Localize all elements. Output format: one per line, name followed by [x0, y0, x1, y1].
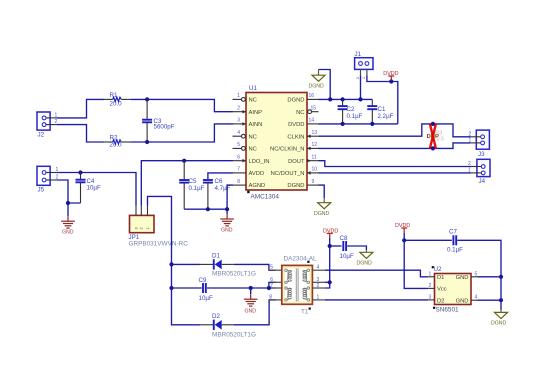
- wire U2 pin5 to DGND rail: [478, 276, 502, 278]
- svg-text:0.1µF: 0.1µF: [347, 113, 363, 120]
- wire DOUT pin11 to J4 pin2: [319, 161, 471, 167]
- wire C8 to DGND: [347, 246, 366, 250]
- wire DVDD node to C8: [330, 245, 342, 247]
- transistor-driver U2 SN6501 body: [432, 266, 471, 314]
- svg-text:10µF: 10µF: [87, 185, 101, 192]
- connector J1: [355, 51, 374, 69]
- wire T1 pin1 to U2 pin3: [325, 299, 429, 301]
- svg-text:5: 5: [475, 271, 478, 277]
- JP1 pin 1 stub: [135, 206, 137, 216]
- svg-text:GND: GND: [221, 227, 233, 233]
- svg-text:DGND: DGND: [314, 211, 330, 217]
- node C7 bus tap: [402, 238, 406, 242]
- svg-text:GRPB031VWVN-RC: GRPB031VWVN-RC: [129, 241, 189, 248]
- wire rail to C9: [172, 287, 202, 289]
- connector J5: [37, 166, 50, 193]
- wire AVDD pin7 to C6: [208, 173, 233, 179]
- U2 pin 4 stub: [471, 295, 478, 301]
- node R2/C3 junction: [145, 140, 149, 144]
- svg-text:Vcc: Vcc: [437, 287, 447, 293]
- svg-text:16: 16: [309, 93, 315, 99]
- connector J2: [37, 112, 50, 139]
- T1 pin 8 stub: [269, 294, 282, 300]
- U2 pin 1 stub: [428, 271, 434, 277]
- power DGND (C8): [357, 250, 373, 266]
- power DGND (below U1): [314, 198, 331, 217]
- svg-text:1: 1: [237, 93, 240, 99]
- J1 pin 1 stub: [362, 69, 367, 79]
- ground GND (J5 area): [61, 216, 75, 235]
- svg-text:D2: D2: [437, 298, 444, 304]
- node R1/C3 junction: [145, 97, 149, 101]
- U1 pin 10 NC/DOUT_N stub: [307, 167, 319, 175]
- svg-text:MBR0520LT1G: MBR0520LT1G: [212, 332, 256, 339]
- wire rail to D1: [172, 263, 200, 265]
- svg-text:DOUT: DOUT: [288, 159, 305, 165]
- svg-text:DGND: DGND: [287, 98, 304, 104]
- svg-text:10µF: 10µF: [199, 295, 213, 302]
- U2 pin 3 stub: [428, 294, 434, 300]
- wire DVDD down to U2 Vcc: [404, 233, 428, 289]
- U1 pin 1 NC stub: [233, 93, 246, 101]
- node DNP top: [431, 122, 435, 126]
- node U2 pin5 junction: [499, 275, 503, 279]
- svg-text:NC: NC: [249, 98, 257, 104]
- wire J1 pin2 to DGND bus: [360, 75, 362, 99]
- svg-text:0.1µF: 0.1µF: [189, 185, 205, 192]
- capacitor C6: [203, 178, 231, 209]
- wire C4 bottom to ground node: [68, 203, 81, 216]
- J3 pin 1 stub: [469, 138, 481, 144]
- svg-text:DGND: DGND: [357, 260, 373, 266]
- node DGND drop: [328, 97, 332, 101]
- svg-text:MBR0520LT1G: MBR0520LT1G: [212, 271, 256, 278]
- wire J5 pin1 to JP1 pin1: [57, 173, 136, 206]
- U1 pin 8 AGND stub: [233, 179, 247, 185]
- T1 pin 2 stub: [312, 283, 324, 289]
- node C2 bottom: [341, 122, 345, 126]
- wire AGND pin8 down: [227, 185, 233, 214]
- svg-text:R2: R2: [110, 135, 118, 142]
- wire T1 pin3 tie: [325, 281, 330, 283]
- svg-text:J2: J2: [38, 132, 45, 139]
- U1 pin 12 NC/CLKIN_N stub: [307, 142, 319, 150]
- svg-text:7: 7: [237, 167, 240, 173]
- U1 pin 11 DOUT stub: [307, 155, 319, 163]
- J5 pin 1 stub: [46, 167, 58, 173]
- svg-text:6: 6: [237, 155, 240, 161]
- node DVDD J1 junction: [389, 79, 393, 83]
- U2 pin 5 stub: [471, 271, 478, 277]
- svg-text:2.2µF: 2.2µF: [378, 113, 394, 120]
- wire DGND bus pin16: [319, 98, 373, 100]
- svg-text:DA2304-AL: DA2304-AL: [284, 256, 317, 263]
- svg-text:8: 8: [237, 179, 240, 185]
- svg-text:14: 14: [309, 118, 315, 124]
- svg-text:1: 1: [362, 77, 366, 79]
- power DVDD (U2 Vcc): [395, 223, 410, 233]
- wire DOUT_N pin10 to J4 pin1: [319, 172, 471, 174]
- U1 pin 9 DGND stub: [307, 179, 319, 185]
- svg-text:DGND: DGND: [491, 321, 507, 327]
- wire C7 to right DGND rail: [457, 240, 501, 310]
- wire R1 to U1 pin2: [131, 99, 233, 111]
- U1 pin 2 AINP stub: [233, 106, 247, 114]
- svg-text:0.5: 0.5: [437, 137, 445, 143]
- U1 pin 5 NC stub: [233, 142, 246, 150]
- U1 pin names left column: [249, 98, 270, 190]
- svg-text:3: 3: [429, 294, 432, 300]
- power DVDD (transformer primary): [323, 228, 338, 238]
- J5 pin 2 stub: [46, 175, 58, 181]
- power DGND (near J1): [309, 70, 326, 90]
- svg-text:13: 13: [312, 130, 318, 136]
- U1 pin 7 AVDD stub: [233, 167, 247, 173]
- svg-text:GND: GND: [62, 230, 74, 236]
- T1 pin 5 stub: [269, 265, 282, 271]
- capacitor C2: [338, 99, 363, 124]
- svg-text:20.0: 20.0: [110, 142, 123, 149]
- wire JP1 pin2 to LDO_IN: [141, 161, 233, 206]
- svg-text:NC/DOUT_N: NC/DOUT_N: [271, 171, 305, 177]
- T1 pin 6 stub: [270, 277, 282, 283]
- svg-text:3: 3: [237, 118, 240, 124]
- svg-text:C9: C9: [199, 277, 207, 284]
- svg-text:R1: R1: [110, 92, 118, 99]
- wire D2 to T1 pin8: [234, 300, 276, 325]
- svg-text:3: 3: [134, 227, 138, 229]
- capacitor C9: [199, 277, 213, 302]
- svg-text:9: 9: [312, 179, 315, 185]
- svg-text:D1: D1: [437, 275, 444, 281]
- node J1 drop: [358, 97, 362, 101]
- svg-text:NC: NC: [296, 110, 304, 116]
- resistor R3 DNP red cross: [427, 124, 444, 149]
- wire DVDD down to T1 pins 3/2: [325, 238, 330, 288]
- svg-text:U2: U2: [434, 266, 442, 273]
- svg-text:U1: U1: [249, 85, 257, 92]
- node C1 bottom: [370, 122, 374, 126]
- svg-text:5: 5: [270, 265, 273, 271]
- svg-text:1: 1: [468, 167, 471, 173]
- svg-text:2: 2: [140, 227, 144, 229]
- svg-text:4: 4: [475, 295, 478, 301]
- wire C9 to T1 pins 6/7: [207, 287, 276, 289]
- power DGND (bottom right): [491, 310, 508, 327]
- svg-text:12: 12: [312, 142, 318, 148]
- T1 pin 1 stub: [312, 294, 324, 300]
- U1 pin 14 DVDD stub: [307, 118, 319, 124]
- wire analog ground bus: [184, 208, 227, 210]
- svg-text:J3: J3: [478, 151, 485, 158]
- svg-text:CLKIN: CLKIN: [287, 134, 304, 140]
- wire R2 to U1 pin3: [131, 124, 233, 142]
- U1 pin 13 CLKIN stub: [307, 130, 319, 138]
- svg-text:GND: GND: [456, 298, 469, 304]
- wire J1 pin1 to DVDD: [367, 75, 398, 124]
- JP1 pin 3 stub: [147, 206, 149, 216]
- diode D1 MBR0520LT1G: [200, 253, 256, 278]
- capacitor C8: [340, 235, 354, 260]
- T1 pin 4 stub: [312, 265, 324, 271]
- node C4 top junction: [78, 170, 82, 174]
- U1 pin 6 LDO_IN stub: [233, 155, 247, 163]
- op-amp U1 AMC1304 body: [246, 85, 307, 201]
- svg-text:4: 4: [237, 130, 240, 136]
- capacitor C5: [179, 161, 204, 210]
- ground GND (C9 line): [244, 288, 258, 314]
- T1 pin 7 stub: [270, 283, 282, 289]
- svg-text:1: 1: [469, 138, 472, 144]
- resistor R2: [104, 135, 131, 149]
- svg-text:5: 5: [237, 142, 240, 148]
- svg-text:2: 2: [237, 106, 240, 112]
- svg-text:2: 2: [469, 131, 472, 137]
- wire DGND pin9 drop: [319, 185, 325, 198]
- svg-text:LDO_IN: LDO_IN: [249, 159, 270, 165]
- T1 pin 3 stub: [312, 277, 324, 283]
- svg-text:AMC1304: AMC1304: [251, 194, 280, 201]
- wire DVDD node to C7: [404, 239, 452, 241]
- svg-text:AINP: AINP: [249, 110, 263, 116]
- svg-text:GND: GND: [245, 308, 257, 314]
- svg-text:DGND: DGND: [309, 83, 325, 89]
- node C2 top: [341, 97, 345, 101]
- U2 pin 2 stub: [428, 283, 434, 289]
- svg-text:2: 2: [429, 283, 432, 289]
- wire J2 pin1 to R1: [57, 99, 104, 118]
- wire D1 to T1 pin5: [234, 264, 276, 270]
- svg-text:2: 2: [356, 77, 360, 79]
- svg-text:1: 1: [317, 294, 320, 300]
- capacitor C3: [142, 99, 175, 142]
- svg-text:GND: GND: [456, 275, 469, 281]
- node DNP bottom: [431, 146, 435, 150]
- connector J4: [477, 159, 490, 185]
- wire DGND symbol drop: [319, 70, 331, 100]
- svg-text:8: 8: [269, 294, 272, 300]
- svg-text:15: 15: [311, 106, 317, 112]
- node pins 6/7 junction: [267, 286, 271, 290]
- wire CLKIN_N pin12 to J3 pin1: [319, 143, 471, 149]
- diode D2 MBR0520LT1G: [200, 313, 256, 339]
- svg-text:J4: J4: [479, 178, 486, 185]
- svg-text:NC: NC: [249, 147, 257, 153]
- wire T1 pin4 to U2 pin1: [325, 270, 429, 277]
- wire JP1 pin3 down left rail: [148, 196, 200, 324]
- connector J3: [476, 130, 489, 158]
- svg-text:AGND: AGND: [249, 183, 266, 189]
- wire CLKIN pin13 to J3 pin2: [319, 124, 471, 137]
- U1 pin 4 NC stub: [233, 130, 246, 138]
- svg-text:2: 2: [317, 283, 320, 289]
- svg-text:DGND: DGND: [287, 183, 304, 189]
- node D1 tap: [169, 262, 173, 266]
- node AGND junction: [225, 207, 229, 211]
- svg-text:J5: J5: [38, 186, 45, 193]
- svg-text:J1: J1: [355, 51, 362, 58]
- node C5 top junction: [182, 159, 186, 163]
- svg-text:AINN: AINN: [249, 122, 263, 128]
- svg-text:1: 1: [146, 227, 150, 229]
- svg-text:1: 1: [429, 271, 432, 277]
- node C8 tap: [328, 244, 332, 248]
- node C9 tap: [169, 286, 173, 290]
- svg-text:NC: NC: [249, 134, 257, 140]
- svg-text:5600pF: 5600pF: [154, 124, 175, 131]
- svg-text:2: 2: [468, 161, 471, 167]
- capacitor C4: [76, 173, 101, 204]
- capacitor C7: [447, 228, 463, 253]
- J3 pin 2 stub: [469, 131, 481, 137]
- wire U2 pin4 to DGND rail: [478, 299, 502, 301]
- svg-text:DVDD: DVDD: [288, 122, 304, 128]
- node C6 bottom junction: [206, 207, 210, 211]
- J4 pin 1 stub: [468, 167, 481, 173]
- JP1 pin 2 stub: [140, 206, 142, 216]
- J2 pin 2 stub: [46, 119, 57, 125]
- U1 pin 16 DGND stub: [307, 93, 319, 99]
- svg-text:NC/CLKIN_N: NC/CLKIN_N: [270, 147, 304, 153]
- svg-text:11: 11: [312, 155, 317, 161]
- svg-text:4: 4: [317, 265, 320, 271]
- U1 pin 3 AINN stub: [233, 118, 247, 126]
- node ground junction: [66, 201, 70, 205]
- svg-text:T1: T1: [301, 308, 309, 315]
- svg-text:C7: C7: [449, 228, 457, 235]
- resistor R1: [104, 92, 131, 108]
- ground GND (AGND bus): [220, 214, 234, 233]
- svg-text:4.7µF: 4.7µF: [215, 185, 231, 192]
- jumper JP1: [129, 215, 189, 247]
- U2 pin names: [437, 275, 469, 304]
- U1 pin 15 NC stub: [308, 106, 319, 114]
- node T1 pin3 junction: [328, 280, 332, 284]
- svg-text:10µF: 10µF: [340, 253, 354, 260]
- svg-text:SN6501: SN6501: [436, 307, 460, 314]
- node GND tap on C9 line: [249, 286, 253, 290]
- svg-text:7: 7: [270, 283, 273, 289]
- wire J2 pin2 to R2: [57, 125, 104, 142]
- svg-text:20.0: 20.0: [110, 101, 123, 108]
- U1 pin names right column: [270, 98, 305, 190]
- svg-text:C8: C8: [340, 235, 348, 242]
- svg-text:10: 10: [312, 167, 318, 173]
- svg-text:AVDD: AVDD: [249, 171, 265, 177]
- J2 pin 1 stub: [46, 112, 57, 118]
- wire J5 pin2 down to ground node: [57, 180, 68, 203]
- node U2 pin4 junction: [499, 298, 503, 302]
- svg-text:D1: D1: [212, 253, 220, 260]
- transformer T1 DA2304-AL: [282, 256, 317, 316]
- power DVDD (top): [383, 71, 398, 81]
- wire DVDD bus pin14: [319, 123, 398, 125]
- wire T1 pin6 tie: [269, 282, 276, 288]
- svg-text:0.1µF: 0.1µF: [447, 246, 463, 253]
- svg-text:D2: D2: [212, 313, 220, 320]
- capacitor C1: [367, 99, 393, 124]
- J1 pin 2 stub: [356, 69, 361, 79]
- J4 pin 2 stub: [468, 161, 481, 167]
